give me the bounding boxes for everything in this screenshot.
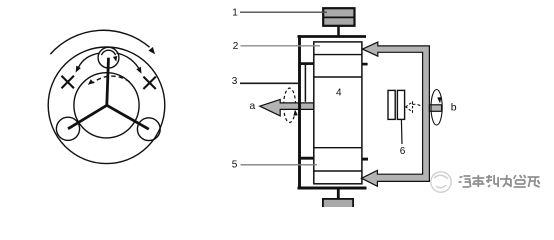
svg-text:b: b	[451, 101, 457, 113]
svg-text:a: a	[249, 100, 255, 112]
svg-text:6: 6	[400, 146, 406, 157]
svg-text:4: 4	[336, 88, 342, 99]
svg-text:3: 3	[232, 76, 238, 87]
svg-text:2: 2	[233, 41, 239, 52]
svg-text:1: 1	[232, 8, 238, 19]
svg-text:5: 5	[232, 160, 238, 171]
